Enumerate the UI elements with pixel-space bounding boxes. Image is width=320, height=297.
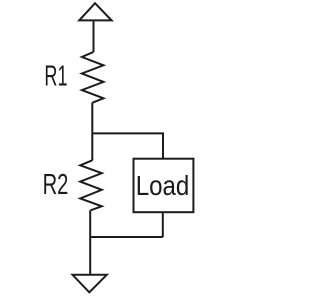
wire node to load (top branch) bbox=[92, 133, 163, 158]
load box outline bbox=[134, 159, 194, 213]
wire R2 to ground arrow bbox=[89, 210, 91, 274]
wire from supply to R1 bbox=[93, 21, 95, 52]
resistor R1 bbox=[82, 52, 104, 103]
wire load bottom to bottom node bbox=[162, 212, 164, 237]
wire R1 to R2 (node between) bbox=[91, 103, 93, 161]
svg-text:R1: R1 bbox=[44, 61, 67, 93]
svg-text:Load: Load bbox=[136, 170, 190, 201]
svg-text:R2: R2 bbox=[43, 169, 69, 201]
power supply arrow (up triangle) bbox=[79, 3, 111, 20]
ground arrow (down triangle) bbox=[73, 275, 107, 293]
resistor R2 bbox=[80, 160, 102, 210]
wire bottom node (horizontal) bbox=[90, 236, 163, 238]
